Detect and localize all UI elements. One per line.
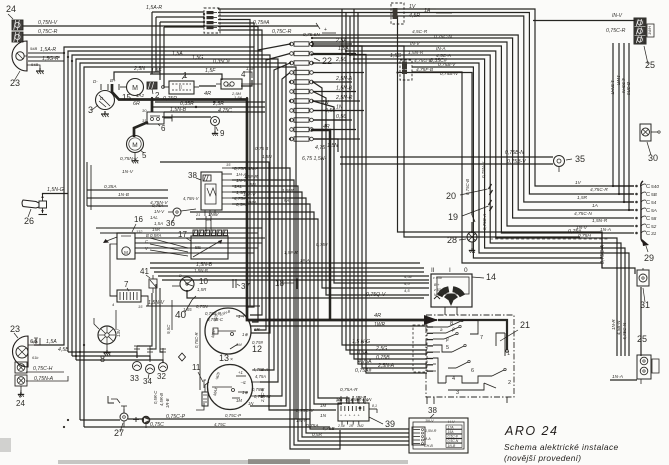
relay box 21	[413, 315, 530, 397]
wire 6R label	[133, 101, 140, 107]
wire 0,75N-V from connector 24	[22, 20, 320, 29]
wire 1V (C1 to C540 terminal)	[218, 9, 634, 186]
svg-text:58: 58	[651, 216, 657, 222]
wire fuse 5 right stub	[313, 76, 353, 82]
wire 4,5R (C1 to C54 terminal)	[218, 16, 634, 202]
terminal strip C540-C31	[635, 181, 659, 246]
svg-text:1,5N-B: 1,5N-B	[170, 107, 187, 113]
connector C1	[204, 8, 220, 33]
thick cable relay 6 to wiper motor 5	[134, 122, 148, 137]
svg-text:#A: #A	[284, 198, 289, 203]
connector 25 (lower)	[637, 334, 659, 384]
wire to pump 27	[80, 419, 120, 421]
junction 37	[233, 279, 250, 291]
beacon 28	[447, 232, 477, 253]
wire run N8 (y214 down)	[190, 212, 342, 404]
valve 27b	[133, 416, 150, 428]
wire run N9 (y221 down)	[196, 219, 349, 404]
svg-text:1N: 1N	[206, 218, 211, 222]
wire fuse 9 right stub	[313, 114, 352, 120]
extra labels texture 2	[284, 242, 328, 263]
svg-text:M 3b: M 3b	[434, 293, 442, 297]
wire trunk M1 (to relay 21 pin 1)	[342, 9, 427, 345]
svg-text:C: C	[646, 216, 650, 222]
svg-text:C: C	[646, 208, 650, 214]
labels right of fuse box	[302, 100, 338, 162]
svg-text:0,75R: 0,75R	[163, 96, 177, 102]
svg-text:0,75C-N: 0,75C-N	[434, 34, 452, 40]
diamond node	[179, 353, 186, 361]
svg-text:0,75R-Ж: 0,75R-Ж	[254, 394, 272, 399]
svg-text:0,5R: 0,5R	[312, 432, 323, 438]
svg-text:4,75B: 4,75B	[322, 426, 335, 432]
svg-text:4,75C-N: 4,75C-N	[574, 211, 592, 217]
headlamp 23 (upper)	[10, 41, 64, 88]
connector 25 (upper)	[634, 18, 655, 70]
svg-text:1N-V: 1N-V	[425, 419, 434, 423]
wire top link 3 with drop at x=160	[160, 22, 204, 80]
wire horn 26 to bundle	[43, 187, 69, 195]
wire staircase r1 (to C31)	[342, 46, 634, 233]
svg-text:6R: 6R	[254, 327, 260, 332]
svg-text:0,75 B: 0,75 B	[255, 146, 268, 151]
svg-text:1,5#R: 1,5#R	[282, 188, 295, 193]
svg-text:37: 37	[241, 282, 250, 291]
rotated labels near 19/20	[465, 161, 487, 230]
svg-text:CH-B: CH-B	[424, 444, 433, 448]
svg-text:19: 19	[448, 212, 458, 222]
svg-text:13: 13	[219, 353, 229, 363]
svg-text:36: 36	[166, 219, 175, 228]
thick cable 4R to relay box 21	[152, 91, 427, 328]
svg-text:0: 0	[464, 267, 468, 274]
wire staircase k4 0,75 6N (fuse to C52)	[312, 38, 634, 218]
wire fuse 8 feed flat	[313, 110, 342, 112]
svg-text:26: 26	[24, 216, 34, 226]
svg-text:25: 25	[645, 60, 655, 70]
svg-text:1N-V: 1N-V	[154, 209, 165, 214]
svg-text:1N-A: 1N-A	[248, 166, 258, 171]
thick entry arrow into relay box 21	[424, 315, 438, 325]
svg-text:M-A: M-A	[424, 437, 431, 441]
svg-text:1,5N: 1,5N	[246, 182, 256, 187]
svg-text:0,75C-V: 0,75C-V	[296, 408, 314, 414]
wire fuse 1 right stub	[313, 38, 352, 44]
junction 18	[275, 278, 298, 290]
svg-text:0,75A#: 0,75A#	[355, 368, 372, 374]
svg-text:+: +	[358, 414, 360, 418]
wire fuse 7 right stub	[313, 95, 360, 101]
svg-text:6R: 6R	[133, 101, 140, 107]
switch 30	[640, 124, 660, 163]
svg-text:II: II	[431, 267, 435, 274]
svg-text:10: 10	[199, 277, 208, 286]
svg-text:0,75C-R: 0,75C-R	[606, 28, 626, 34]
svg-text:2,5A: 2,5A	[335, 38, 347, 44]
svg-text:5#B: 5#B	[30, 46, 37, 51]
svg-text:15A: 15A	[448, 430, 455, 434]
wire 1,5F	[150, 68, 222, 80]
title ARO 24	[504, 424, 619, 463]
svg-text:0,75C: 0,75C	[150, 422, 164, 428]
wire sensor 11 to gauge 13	[196, 380, 206, 410]
svg-text:0,35C#: 0,35C#	[213, 59, 230, 65]
svg-text:1R: 1R	[349, 424, 354, 428]
wire fuse 3 right stub	[313, 57, 360, 63]
condenser 2	[147, 82, 160, 100]
svg-text:0,75C-P: 0,75C-P	[225, 413, 241, 418]
sensor 9	[211, 117, 226, 139]
washer pump 27	[114, 406, 128, 438]
svg-text:38: 38	[428, 406, 437, 415]
svg-text:1,5N: 1,5N	[262, 154, 272, 159]
svg-text:Schema alektrické instalace: Schema alektrické instalace	[504, 442, 619, 452]
svg-text:15R: 15R	[152, 227, 161, 232]
svg-text:6,75 1,5N-: 6,75 1,5N-	[302, 156, 326, 162]
heater blower 16	[110, 215, 143, 259]
svg-text:1N#: 1N#	[336, 399, 342, 403]
svg-text:H-V: H-V	[448, 420, 455, 424]
svg-text:1A: 1A	[592, 203, 598, 209]
wire top link 2 with drop at x=156	[156, 17, 204, 72]
scan smudge left edge	[0, 438, 11, 452]
wire run N3 (38 stub to 38b)	[232, 180, 409, 445]
svg-text:13V: 13V	[116, 328, 121, 337]
svg-text:C: C	[646, 224, 650, 230]
svg-text:1N-A: 1N-A	[612, 374, 623, 380]
indicator bulb 33	[130, 362, 142, 384]
wire trunk M9 short right	[312, 46, 581, 237]
wire 16 pin wires	[135, 230, 265, 253]
svg-text:M: M	[124, 250, 128, 255]
svg-text:1A: 1A	[424, 8, 431, 14]
svg-text:D: D	[179, 274, 182, 278]
svg-text:24: 24	[16, 399, 25, 408]
svg-text:24: 24	[6, 4, 16, 14]
wire top link 1 with drop at x=152	[152, 12, 204, 74]
svg-text:5: 5	[446, 345, 449, 351]
connector 39	[336, 398, 395, 429]
svg-text:4,5: 4,5	[404, 288, 410, 293]
svg-text:1N-V: 1N-V	[122, 169, 134, 175]
instrument cluster gauge 12	[205, 308, 262, 354]
svg-text:11: 11	[192, 363, 201, 372]
wire fuse 4 right stub	[313, 72, 364, 74]
wire connector C3 line 4,75F-B	[412, 72, 602, 263]
wire 0,75C-R from connector 24 to right staircase (to C5A)	[22, 28, 634, 210]
svg-text:1⊕: 1⊕	[242, 390, 248, 395]
svg-text:1,5#-R: 1,5#-R	[244, 174, 258, 179]
wire fuse 6 feed (to switch 14 pin b)	[313, 92, 429, 296]
svg-text:54B: 54B	[31, 62, 38, 67]
fuse box 22	[290, 42, 332, 141]
starter motor 15	[119, 79, 145, 103]
wire 9,5C vertical	[166, 300, 172, 334]
svg-text:1,5F: 1,5F	[151, 68, 162, 74]
wire left-bundle line L3 (to gauge 12 6R)	[72, 55, 270, 356]
svg-text:18: 18	[275, 279, 284, 288]
svg-text:6: 6	[471, 368, 474, 374]
label 4,5R	[409, 13, 420, 19]
svg-text:38: 38	[188, 171, 197, 180]
connector 24	[6, 4, 23, 42]
extra trunk labels	[282, 27, 413, 293]
svg-text:IN-V: IN-V	[612, 13, 623, 19]
wire gauge bundle g4	[162, 279, 429, 281]
wire 0,75C-P right	[214, 413, 241, 427]
wire lamp23-low feed	[34, 338, 64, 345]
wire 1,5N-V	[146, 300, 260, 306]
wire 31 to connector 25-bottom	[611, 287, 641, 356]
labels bottom corner bundle	[260, 387, 358, 438]
diode 41	[140, 267, 157, 293]
wire coil 1 to dist 4	[199, 80, 252, 86]
indicator bulb 32	[157, 363, 168, 382]
svg-text:1WR: 1WR	[616, 75, 621, 86]
wire IN-V to connector 25	[533, 13, 635, 21]
horn 26	[22, 195, 47, 227]
wire run N1 (y162 to 39 left)	[160, 162, 336, 410]
labels at terminal strip	[574, 180, 611, 239]
tiny mark top right	[600, 1, 605, 7]
svg-text:I: I	[449, 267, 451, 274]
svg-text:1,5N-V: 1,5N-V	[148, 300, 165, 306]
wire 38 stub 7	[222, 203, 232, 205]
svg-text:5B: 5B	[651, 192, 658, 198]
thick cable 4R from fuse box down	[311, 130, 330, 320]
svg-text:1,5A-R: 1,5A-R	[40, 47, 56, 53]
relay 38 (upper)	[188, 171, 222, 222]
arrow into 16	[103, 237, 117, 243]
wire verticals mid-left	[87, 162, 91, 210]
svg-text:4,5#: 4,5#	[404, 274, 413, 279]
svg-text:1,5#-R: 1,5#-R	[284, 250, 298, 255]
svg-text:1,5 N-G: 1,5 N-G	[352, 339, 370, 345]
svg-text:2,5N-A: 2,5N-A	[377, 363, 395, 369]
svg-text:5A: 5A	[651, 208, 657, 214]
svg-text:4,5R-B: 4,5R-B	[159, 393, 164, 406]
svg-text:1,5R: 1,5R	[197, 287, 207, 292]
wire 38 bottom pins to 17 top	[206, 216, 211, 231]
svg-text:1,5N-R: 1,5N-R	[592, 218, 608, 224]
svg-text:8,1: 8,1	[372, 404, 377, 408]
wire labels above 39	[336, 395, 372, 402]
svg-text:1,5A: 1,5A	[46, 339, 57, 345]
wire top link 4 with drop at x=164	[164, 27, 204, 86]
svg-text:1AL: 1AL	[150, 215, 158, 220]
svg-text:+: +	[349, 414, 351, 418]
svg-text:0,75A-R: 0,75A-R	[340, 387, 358, 393]
svg-text:1,5W-R: 1,5W-R	[350, 398, 362, 402]
svg-text:17A: 17A	[448, 425, 455, 429]
labels right of box 38	[208, 162, 249, 217]
svg-text:1М: 1М	[236, 398, 242, 403]
wire run N4 (38 stub to 38b)	[232, 186, 409, 441]
label stack left of regulator 17	[150, 203, 165, 238]
wire staircase r2 (to 25-lower via x617)	[346, 51, 617, 356]
svg-text:7: 7	[480, 335, 483, 341]
svg-text:0,5R-C: 0,5R-C	[153, 390, 158, 404]
label 1A	[424, 8, 452, 14]
svg-text:27: 27	[114, 428, 124, 438]
wire trunk M5 (to relay 21 pin 5)	[358, 13, 427, 365]
svg-text:1M2: 1M2	[357, 424, 364, 428]
svg-text:22: 22	[322, 56, 332, 66]
wire 0,75C-B down to beacon 28	[398, 73, 476, 232]
svg-text:15: 15	[138, 304, 143, 309]
svg-text:34: 34	[143, 377, 152, 386]
wire fuse 5 feed (to switch 14 pin a)	[313, 82, 429, 288]
ignition switch 10	[172, 268, 208, 292]
labels right of gauge 13	[248, 367, 272, 406]
labels on upper staircase	[172, 46, 447, 65]
wire staircase k5 (fuse to C5D)	[312, 42, 634, 226]
svg-text:7: 7	[124, 280, 129, 289]
svg-text:10#-V: 10#-V	[243, 192, 256, 197]
svg-text:ARO 24: ARO 24	[504, 424, 558, 438]
dashed sheath line	[490, 238, 608, 240]
wire under box 21 stubs	[427, 397, 507, 404]
wire mid-left bundle 1	[87, 189, 168, 191]
wire verticals down to bulbs	[137, 284, 163, 352]
wire staircase r3 (to 25-lower via x621)	[350, 55, 621, 356]
svg-text:540: 540	[651, 184, 659, 190]
wire fuse 7 feed (to switch 14 pin c)	[313, 101, 429, 283]
connector C2	[391, 3, 404, 24]
svg-text:4,5G-N: 4,5G-N	[621, 78, 626, 93]
flasher relay 6	[142, 108, 166, 133]
wire mid-left bundle 3	[87, 205, 168, 207]
svg-text:15: 15	[226, 162, 231, 167]
wire trunk M7 (fuse feed to relay 21 pin 7)	[312, 55, 427, 374]
svg-text:1,5N-R: 1,5N-R	[425, 429, 437, 433]
wire fuse 2 right stub	[313, 53, 356, 55]
svg-text:61b: 61b	[32, 356, 38, 360]
instrument cluster gauge 13	[208, 353, 253, 410]
wire 38 stub 2	[222, 173, 232, 175]
svg-text:23: 23	[10, 324, 20, 334]
svg-text:×: ×	[230, 357, 233, 363]
thick cable across relay box 21	[438, 320, 508, 352]
svg-text:1A2: 1A2	[136, 93, 145, 98]
svg-text:1N: 1N	[322, 100, 329, 106]
wire vertical 0,75C-R at gauges left	[194, 318, 200, 390]
wire run N2 (y168 to 39 bottom)	[232, 168, 340, 449]
svg-text:W: W	[227, 83, 231, 88]
svg-text:4,75C: 4,75C	[214, 422, 227, 427]
svg-text:56Δ: 56Δ	[31, 340, 38, 344]
relay 6 right tick	[164, 115, 172, 122]
svg-text:52: 52	[651, 224, 657, 230]
svg-text:14: 14	[486, 272, 496, 282]
dot on 0,35R wire	[195, 101, 215, 108]
svg-text:21: 21	[520, 320, 530, 330]
svg-text:0,56: 0,56	[336, 114, 346, 120]
svg-text:0,75C-R: 0,75C-R	[38, 29, 58, 35]
svg-text:0,75N-V: 0,75N-V	[38, 20, 58, 26]
svg-text:M: M	[132, 85, 138, 92]
svg-text:1,5A-R: 1,5A-R	[146, 5, 162, 11]
svg-text:132: 132	[136, 230, 143, 234]
svg-text:21: 21	[195, 213, 200, 217]
svg-text:C: C	[646, 192, 650, 198]
voltage regulator 17	[178, 230, 228, 259]
svg-text:1WR: 1WR	[374, 322, 386, 328]
wire 39 pin 5	[364, 396, 366, 404]
svg-text:+1: +1	[238, 370, 243, 375]
svg-text:B+: B+	[110, 78, 116, 83]
svg-text:0,75N-V: 0,75N-V	[481, 161, 486, 178]
wire 38 stub 4	[222, 185, 232, 187]
wire gauge 13 stubs	[250, 340, 264, 396]
wire 14 to 21 links	[445, 307, 457, 315]
svg-text:1N-V: 1N-V	[576, 225, 588, 231]
wire trunk M4 (to relay 21 pin 4)	[354, 9, 427, 359]
svg-text:0,5C-#: 0,5C-#	[448, 435, 458, 439]
svg-text:⊣1: ⊣1	[240, 380, 246, 385]
svg-text:0,75#: 0,75#	[316, 242, 328, 247]
svg-text:1,5N-G: 1,5N-G	[47, 187, 64, 193]
svg-text:0,75H: 0,75H	[578, 233, 591, 239]
wire 38 stub 3	[222, 179, 232, 181]
wire fuse 1 feed (to gauge 12 right1)	[252, 44, 290, 322]
wire fuse 10 right stub	[313, 129, 356, 131]
svg-text:+: +	[353, 414, 355, 418]
wire 0,5C-# labels	[153, 390, 170, 408]
wire 2,5N	[114, 66, 160, 80]
oil sensor 36	[166, 196, 200, 228]
connector 38 (lower)	[409, 406, 468, 453]
extra labels texture 1	[243, 146, 272, 205]
svg-text:30: 30	[142, 108, 147, 113]
generator 8	[94, 318, 116, 364]
svg-text:+: +	[340, 414, 342, 418]
wire to bulb 34	[72, 356, 150, 360]
wire gauge bundle g3	[158, 276, 429, 298]
wire fuse 9 feed flat	[313, 119, 346, 121]
headlamp 23 (lower)	[10, 324, 39, 367]
svg-text:B +: B +	[434, 283, 440, 287]
wire 0,75B-N to flasher 35	[340, 150, 553, 157]
svg-text:1V: 1V	[575, 180, 582, 186]
svg-text:4,75C-R: 4,75C-R	[590, 187, 608, 193]
svg-text:0,75Q-V: 0,75Q-V	[366, 292, 386, 298]
indicator bulb 34	[143, 365, 155, 387]
svg-text:2,5G: 2,5G	[375, 346, 387, 352]
wire C1 hook h2 down trunk	[218, 23, 254, 47]
svg-text:1: 1	[183, 71, 188, 80]
svg-text:1R-B: 1R-B	[165, 398, 170, 408]
wire 38 stub 1	[222, 167, 232, 169]
svg-text:D-: D-	[93, 79, 98, 84]
svg-text:54: 54	[651, 200, 657, 206]
svg-text:1#-A: 1#-A	[300, 258, 310, 263]
labels of bundle to relay 21	[352, 244, 606, 374]
svg-text:0,75A: 0,75A	[306, 423, 319, 429]
svg-text:0,35C#: 0,35C#	[430, 58, 447, 64]
wire gauge bundle g1	[150, 262, 424, 268]
svg-text:0,75#A: 0,75#A	[253, 20, 270, 26]
svg-text:39: 39	[385, 419, 395, 429]
plug junction 20	[446, 184, 493, 201]
svg-text:1N: 1N	[320, 413, 327, 419]
wire C1 hook h3 down trunk	[218, 27, 258, 53]
svg-text:0,75 6N: 0,75 6N	[303, 32, 320, 38]
svg-text:0,5C-N: 0,5C-N	[448, 439, 459, 443]
wiper switch 14	[431, 267, 496, 307]
svg-text:2,56: 2,56	[335, 57, 346, 63]
svg-text:c 53b: c 53b	[433, 276, 442, 280]
